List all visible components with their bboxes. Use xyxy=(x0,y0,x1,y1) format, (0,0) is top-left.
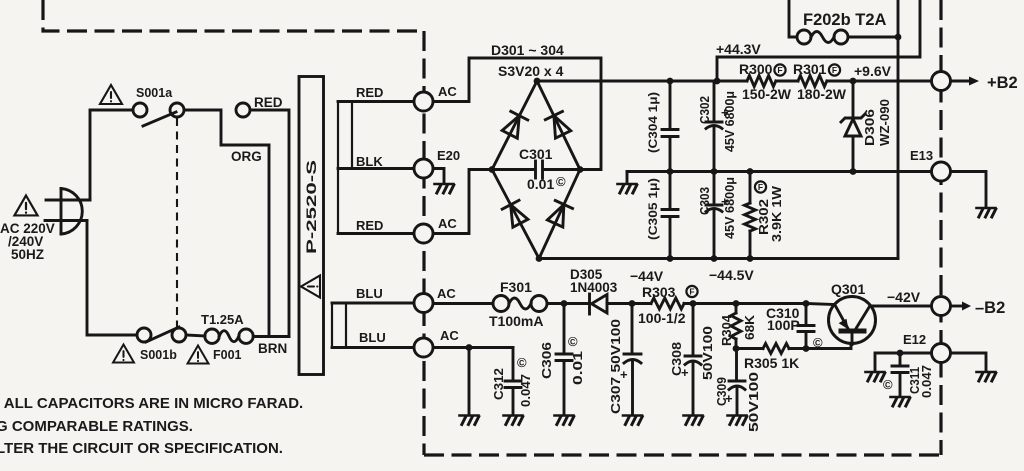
svg-text:WZ-090: WZ-090 xyxy=(877,99,892,146)
capacitor C309 xyxy=(735,349,738,380)
resistor R305 xyxy=(736,347,763,350)
wire plug-bottom to S001b xyxy=(87,221,137,336)
svg-text:E20: E20 xyxy=(437,148,460,163)
svg-text:©: © xyxy=(883,377,893,392)
svg-text:RED: RED xyxy=(356,218,383,233)
ground (C311) xyxy=(891,397,910,406)
wire AC blu2 xyxy=(433,346,513,349)
switch S001a xyxy=(133,103,147,117)
svg-text:0.047: 0.047 xyxy=(920,365,934,398)
wire AC blu1 to F301 xyxy=(433,302,493,305)
svg-text:BLU: BLU xyxy=(359,330,386,345)
ground (C308) xyxy=(684,416,703,425)
svg-text:0.01: 0.01 xyxy=(527,176,554,192)
resistor R304 xyxy=(735,304,738,314)
svg-text:LTER THE CIRCUIT OR SPECIFICAT: LTER THE CIRCUIT OR SPECIFICATION. xyxy=(0,440,283,457)
wire E13 to ground xyxy=(951,172,987,208)
svg-text:P-2520-S: P-2520-S xyxy=(303,160,319,254)
svg-text:F: F xyxy=(832,65,837,75)
wire E12 left xyxy=(875,353,932,371)
dashed boundary left edge xyxy=(422,31,425,455)
ground (C309) xyxy=(728,416,747,425)
terminal AC top xyxy=(414,92,433,111)
svg-text:F: F xyxy=(758,182,763,192)
node bridge bottom xyxy=(536,255,543,262)
node C310 bottom xyxy=(803,345,810,352)
svg-text:0.01: 0.01 xyxy=(571,351,585,385)
resistor R303 xyxy=(651,298,684,309)
wire to terminal AC2 xyxy=(338,232,414,235)
wire emitter xyxy=(806,344,851,349)
svg-text:R300: R300 xyxy=(739,61,773,77)
circled F (R301) xyxy=(829,64,840,75)
svg-text:C307 50V100: C307 50V100 xyxy=(608,319,623,414)
ground (C306) xyxy=(555,416,574,425)
dashed boundary bottom edge xyxy=(424,453,941,456)
wire top rail xyxy=(537,80,747,83)
svg-text:E12: E12 xyxy=(903,332,926,347)
wire mid rail ground stub xyxy=(626,172,629,184)
diode D302 xyxy=(545,111,571,138)
svg-text:180-2W: 180-2W xyxy=(797,86,847,102)
node F202b junction xyxy=(895,34,902,41)
svg-text:S001b: S001b xyxy=(140,348,177,362)
svg-text:D301 ~ 304: D301 ~ 304 xyxy=(491,42,564,58)
terminal AC mid xyxy=(414,224,433,243)
wire AC top to bridge xyxy=(433,58,601,170)
resistor R301 xyxy=(798,76,827,87)
svg-text:150-2W: 150-2W xyxy=(742,86,792,102)
svg-text:F: F xyxy=(689,287,694,297)
svg-text:E13: E13 xyxy=(910,148,933,163)
node top rail D306 xyxy=(850,78,857,85)
svg-text:−44V: −44V xyxy=(630,268,664,284)
circled F (R302) xyxy=(755,181,766,192)
svg-text:100-1/2: 100-1/2 xyxy=(638,310,686,326)
svg-text:50HZ: 50HZ xyxy=(11,247,44,262)
svg-text:68K: 68K xyxy=(742,314,757,340)
wire to terminal AC1 xyxy=(338,100,414,103)
wire S001a to ORG xyxy=(184,110,269,145)
capacitor C310 xyxy=(805,304,808,324)
dashed boundary top-left corner xyxy=(43,0,424,31)
node R304 top xyxy=(733,300,740,307)
diode D301 xyxy=(501,111,527,138)
svg-text:AC: AC xyxy=(438,216,457,231)
wire to terminal AC4 xyxy=(332,346,414,349)
capacitor C303 xyxy=(713,172,716,204)
diode D303 xyxy=(502,200,529,227)
diode D305 xyxy=(592,295,608,314)
svg-text:45V 6800μ: 45V 6800μ xyxy=(723,91,737,152)
node mid rail C304 xyxy=(667,168,674,175)
warning triangle (plug) xyxy=(14,196,37,216)
terminal +B2 xyxy=(932,72,951,91)
svg-text:F001: F001 xyxy=(213,348,242,362)
wire +44.3V riser xyxy=(717,0,920,81)
wire mid rail xyxy=(627,170,932,173)
wire F301 to D305 xyxy=(547,302,590,305)
wire -B2 arrow xyxy=(951,305,964,308)
warning triangle (F001) xyxy=(188,346,209,364)
svg-text:©: © xyxy=(556,174,566,189)
svg-text:C309: C309 xyxy=(714,377,729,406)
svg-text:3.9K 1W: 3.9K 1W xyxy=(769,185,784,242)
svg-text:D306: D306 xyxy=(862,109,877,146)
ground (E20) xyxy=(435,184,454,193)
svg-text:C301: C301 xyxy=(519,146,553,162)
ground (E12 right) xyxy=(977,372,996,381)
svg-text:©: © xyxy=(568,334,578,349)
svg-text:BRN: BRN xyxy=(258,341,287,356)
svg-text:0.047: 0.047 xyxy=(519,374,533,407)
svg-text:AC: AC xyxy=(437,286,456,301)
wire R303 to R304 xyxy=(684,302,806,305)
svg-text:(C305 1μ): (C305 1μ) xyxy=(646,178,660,240)
fuse F001 xyxy=(205,329,219,343)
node C311 xyxy=(897,350,904,357)
svg-text:F202b T2A: F202b T2A xyxy=(803,11,887,29)
wire +B2 arrow xyxy=(951,80,971,83)
svg-text:ORG: ORG xyxy=(231,149,262,164)
connector P-2520-S xyxy=(299,77,324,375)
node bridge left xyxy=(489,166,496,173)
wire to terminal AC3 xyxy=(332,302,414,305)
AC plug P001 xyxy=(61,189,82,235)
svg-text:C302: C302 xyxy=(698,96,712,124)
node C306 xyxy=(561,300,568,307)
node bottom rail C305 xyxy=(667,255,674,262)
svg-text:C312: C312 xyxy=(492,368,506,400)
wire Q301 collector out xyxy=(870,305,932,308)
circled F (R303) xyxy=(686,286,697,297)
svg-text:+9.6V: +9.6V xyxy=(854,63,892,79)
svg-text:45V 6800μ: 45V 6800μ xyxy=(723,177,737,239)
bridge diamond xyxy=(492,81,580,170)
wire -44.5V riser xyxy=(897,0,900,259)
svg-text:+44.3V: +44.3V xyxy=(716,41,761,57)
svg-text:AC: AC xyxy=(438,84,457,99)
switch S001b xyxy=(137,328,151,342)
circled F (R300) xyxy=(774,64,785,75)
ground (mid rail) xyxy=(618,184,637,193)
terminal RED (primary) xyxy=(236,103,250,117)
svg-text:T1.25A: T1.25A xyxy=(201,312,244,327)
wire ORG down xyxy=(268,145,271,337)
svg-text:C308: C308 xyxy=(669,342,684,376)
svg-text:F301: F301 xyxy=(500,279,532,295)
svg-text:1N4003: 1N4003 xyxy=(570,280,618,295)
capacitor C312 xyxy=(512,348,515,380)
capacitor C308 xyxy=(692,304,695,355)
svg-text:©: © xyxy=(517,355,527,370)
svg-text:−44.5V: −44.5V xyxy=(709,267,754,283)
wire AC mid to bridge xyxy=(433,170,492,234)
svg-text:C306: C306 xyxy=(540,342,554,379)
terminal E13 xyxy=(932,162,951,181)
svg-text:50V100: 50V100 xyxy=(746,372,761,432)
node bridge right xyxy=(577,166,584,173)
terminal -B2 xyxy=(932,297,951,316)
warning triangle (S001b) xyxy=(113,345,134,363)
svg-text:–B2: –B2 xyxy=(975,299,1005,317)
svg-text:T100mA: T100mA xyxy=(489,313,543,329)
node mid rail R302 xyxy=(747,168,754,175)
zener D306 xyxy=(852,81,855,118)
terminal AC blu1 xyxy=(414,294,433,313)
wire D305 to R303 xyxy=(607,302,651,305)
capacitor C304 xyxy=(669,81,672,128)
svg-text:100P: 100P xyxy=(767,317,800,333)
transistor Q301 xyxy=(829,297,876,344)
node AC blu2 ground xyxy=(466,344,473,351)
svg-text:BLU: BLU xyxy=(356,286,383,301)
wire F202b right xyxy=(848,36,898,39)
svg-text:S001a: S001a xyxy=(136,86,173,100)
ground (E12 left) xyxy=(866,372,885,381)
resistor R302 xyxy=(749,172,752,204)
wire E12 right xyxy=(951,353,987,371)
node top rail riser xyxy=(714,78,721,85)
svg-text:(C304 1μ): (C304 1μ) xyxy=(646,92,660,153)
svg-text:50V100: 50V100 xyxy=(700,326,715,380)
wire F001 to BRN xyxy=(253,335,289,338)
wire to terminal E20 xyxy=(338,167,414,170)
node mid rail C302 xyxy=(711,168,718,175)
svg-text:R304: R304 xyxy=(719,314,734,346)
warning triangle (connector) xyxy=(301,276,320,298)
svg-text:R301: R301 xyxy=(793,61,827,77)
node top rail C304 xyxy=(667,78,674,85)
ground (C307) xyxy=(623,416,642,425)
wire F202b left xyxy=(789,0,797,37)
svg-text:F: F xyxy=(777,65,782,75)
svg-text:BLK: BLK xyxy=(356,154,383,169)
svg-text:+B2: +B2 xyxy=(987,74,1018,92)
fuse F301 xyxy=(493,296,509,312)
svg-text:Q301: Q301 xyxy=(831,281,865,297)
warning triangle (S001a) xyxy=(100,85,122,104)
capacitor C302 xyxy=(713,81,716,120)
terminal E12 xyxy=(932,344,951,363)
svg-text:. ALL CAPACITORS ARE IN MICRO: . ALL CAPACITORS ARE IN MICRO FARAD. xyxy=(0,395,303,412)
ground (C312) xyxy=(504,416,523,425)
wire S001b to F001 xyxy=(186,335,205,336)
svg-text:S3V20 x 4: S3V20 x 4 xyxy=(498,63,564,79)
svg-text:R303: R303 xyxy=(642,284,676,300)
svg-text:RED: RED xyxy=(254,95,283,110)
ground (E13) xyxy=(977,208,996,217)
node R304 bottom xyxy=(733,345,740,352)
capacitor C301 xyxy=(492,168,534,171)
capacitor C311 xyxy=(899,353,902,364)
ground (blu2) xyxy=(460,416,479,425)
node mid rail D306 xyxy=(850,168,857,175)
node C310 top xyxy=(803,300,810,307)
harness bus (BLU/BLU) xyxy=(331,303,333,348)
svg-text:−42V: −42V xyxy=(887,289,921,305)
wire bottom rail xyxy=(539,257,898,260)
svg-text:C303: C303 xyxy=(698,187,712,215)
terminal E20 xyxy=(414,159,433,178)
node bottom rail R302 xyxy=(747,255,754,262)
wire RED down xyxy=(250,110,289,337)
node bridge top xyxy=(534,78,541,85)
resistor R300 xyxy=(747,76,776,87)
terminal AC blu2 xyxy=(414,338,433,357)
svg-text:RED: RED xyxy=(356,85,383,100)
wire E20 to ground xyxy=(433,169,444,184)
node C307 xyxy=(629,300,636,307)
svg-text:AC: AC xyxy=(440,328,459,343)
harness bus (RED/BLK/RED) xyxy=(337,102,339,234)
capacitor C307 xyxy=(631,304,634,353)
wire plug-top to S001a xyxy=(90,110,133,200)
fuse F202b xyxy=(797,30,811,44)
dashed boundary right edge xyxy=(939,0,942,455)
wire blu2 ground stub xyxy=(468,348,471,416)
wire Q301 emitter-in xyxy=(806,304,834,305)
svg-text:G COMPARABLE RATINGS.: G COMPARABLE RATINGS. xyxy=(0,418,193,435)
capacitor C306 xyxy=(563,304,566,353)
diode D304 xyxy=(546,200,572,227)
node C308 xyxy=(690,300,697,307)
capacitor C305 xyxy=(669,172,672,208)
mechanical link S001a-S001b xyxy=(176,118,178,327)
node bottom rail C303 xyxy=(711,255,718,262)
svg-text:R305 1K: R305 1K xyxy=(744,355,799,371)
